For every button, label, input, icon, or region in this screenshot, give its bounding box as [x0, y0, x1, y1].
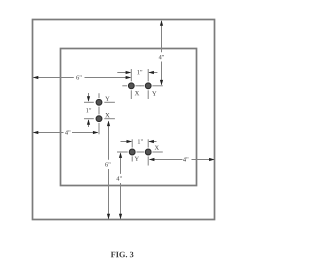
dot F	[145, 149, 151, 155]
dimension 1 inch top pair	[117, 70, 157, 74]
dot D	[96, 116, 102, 122]
dot F ticks	[140, 139, 163, 165]
dimension 1 inch vertical left pair	[86, 93, 91, 127]
label Y for dot C	[105, 97, 109, 101]
label X for dot D	[105, 113, 109, 117]
label Y for dot B	[152, 91, 156, 95]
dimension 6 inch vertical	[105, 121, 110, 220]
dot D ticks	[84, 110, 115, 134]
dot B	[145, 83, 151, 89]
outer square	[33, 20, 215, 220]
label X for dot A	[135, 91, 139, 95]
dimension 6 inch horizontal	[33, 75, 131, 79]
dimension 4 inch horizontal right	[149, 157, 215, 161]
dimension 4 inch vertical bottom	[116, 152, 122, 219]
dot A	[128, 83, 134, 89]
inner square	[61, 49, 197, 186]
caption FIG. 3	[111, 252, 134, 258]
dot E ticks	[117, 139, 141, 161]
label Y for dot E	[135, 157, 139, 161]
dimension 4 inch horizontal left	[33, 130, 99, 134]
dot B ticks	[140, 69, 163, 99]
dot A ticks	[122, 69, 140, 99]
label X for dot F	[155, 146, 159, 150]
dot C	[96, 99, 102, 105]
dot E	[129, 149, 135, 155]
dimension 4 inch vertical top right	[159, 20, 164, 85]
dimension 1 inch bottom pair	[121, 139, 157, 143]
dot C ticks	[84, 93, 115, 111]
